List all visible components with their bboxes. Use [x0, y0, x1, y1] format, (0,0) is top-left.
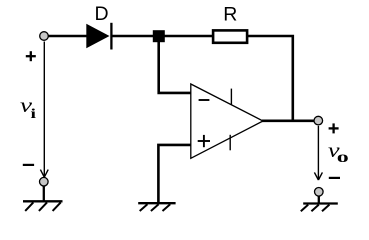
label + (output)	[329, 123, 339, 133]
diode D	[86, 23, 111, 50]
arrow v_o (output voltage)	[314, 126, 322, 180]
label - (input)	[23, 164, 34, 166]
svg-text:i: i	[31, 106, 37, 122]
label - (output)	[329, 177, 340, 179]
wire non-inverting input to middle ground	[158, 145, 190, 203]
op-amp U1	[191, 84, 263, 158]
wire diode cathode to resistor left (through junction)	[111, 35, 213, 38]
arrow v_i (input voltage)	[40, 42, 48, 178]
wire input- terminal to ground	[43, 186, 45, 201]
terminal output -	[315, 188, 324, 197]
node junction (diode/resistor/inverting input)	[153, 30, 165, 42]
label v_o	[328, 140, 349, 166]
wire resistor right to corner and down to output line	[248, 36, 293, 121]
terminal input -	[40, 177, 49, 186]
svg-text:R: R	[223, 3, 237, 25]
ground (left, input)	[23, 201, 63, 211]
label R	[223, 3, 237, 25]
wire output- terminal to ground	[318, 196, 320, 203]
label D	[95, 3, 109, 25]
label v_i	[20, 95, 36, 121]
svg-text:D: D	[95, 3, 109, 25]
ground (right, output)	[301, 204, 338, 212]
label + (input)	[26, 51, 36, 61]
ground (middle, op-amp non-inverting)	[138, 203, 175, 211]
wire op-amp output to output terminal	[262, 120, 315, 123]
terminal input +	[40, 32, 49, 41]
wire input terminal to diode anode	[44, 35, 87, 38]
svg-text:o: o	[337, 149, 349, 166]
wire junction down to inverting input	[159, 36, 191, 93]
terminal output +	[314, 116, 323, 125]
resistor R	[213, 30, 247, 42]
